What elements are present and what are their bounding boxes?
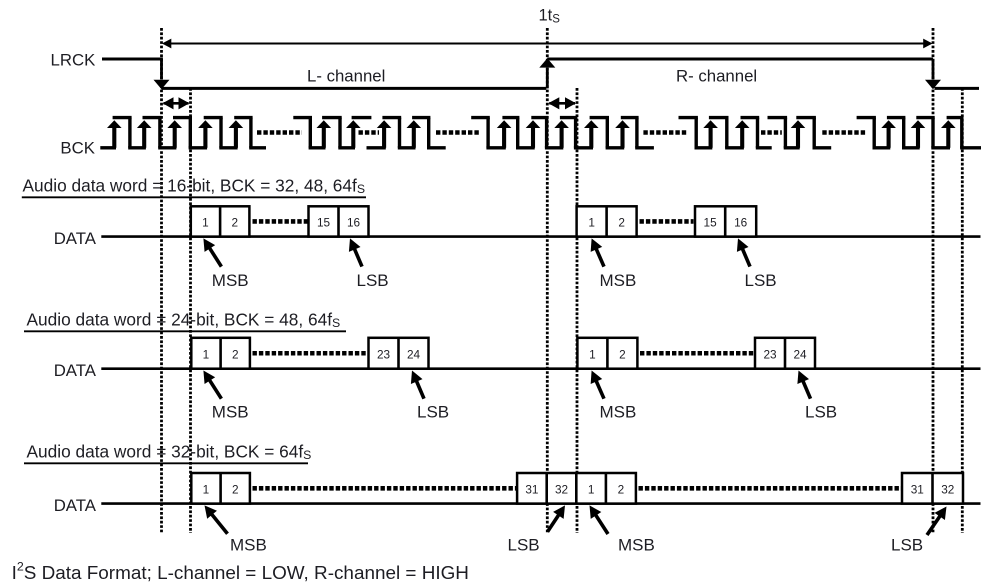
node row3 L MSB bbox=[211, 513, 228, 534]
wire row2 L dots bbox=[253, 351, 368, 356]
svg-text:R- channel: R- channel bbox=[676, 66, 757, 85]
wire LRCK rising edge arrow at center bbox=[546, 68, 549, 88]
svg-text:2: 2 bbox=[618, 215, 625, 229]
node row1 L boxes 1-2 bbox=[191, 206, 250, 236]
svg-text:MSB: MSB bbox=[600, 271, 637, 290]
svg-text:1: 1 bbox=[588, 482, 595, 496]
svg-text:16: 16 bbox=[347, 215, 361, 229]
svg-text:MSB: MSB bbox=[600, 403, 637, 422]
svg-text:DATA: DATA bbox=[54, 496, 97, 515]
node row1 R LSB bbox=[742, 248, 750, 267]
svg-text:LSB: LSB bbox=[805, 403, 837, 422]
svg-text:MSB: MSB bbox=[230, 536, 267, 555]
wire LRCK falling edge arrow at right bbox=[932, 59, 935, 79]
svg-text:23: 23 bbox=[763, 347, 777, 361]
svg-text:BCK: BCK bbox=[60, 139, 95, 158]
svg-text:16: 16 bbox=[734, 215, 748, 229]
svg-text:2: 2 bbox=[619, 347, 626, 361]
wire LRCK lead-in high bbox=[102, 58, 163, 61]
svg-text:I2S Data Format; L-channel = L: I2S Data Format; L-channel = LOW, R-chan… bbox=[12, 560, 469, 584]
svg-text:LSB: LSB bbox=[357, 271, 389, 290]
wire DATA line row1 bbox=[101, 235, 980, 238]
svg-text:15: 15 bbox=[317, 215, 331, 229]
wire BCK clock waveform with rising-edge arrows bbox=[100, 146, 116, 149]
svg-text:DATA: DATA bbox=[54, 229, 97, 248]
svg-text:1: 1 bbox=[588, 215, 595, 229]
svg-text:31: 31 bbox=[911, 482, 924, 496]
node row2 R MSB bbox=[596, 380, 604, 399]
svg-text:Audio data word = 32-bit, BCK: Audio data word = 32-bit, BCK = 64fS bbox=[27, 442, 312, 463]
wire LRCK falling edge arrow at L start bbox=[160, 59, 163, 79]
svg-text:LRCK: LRCK bbox=[51, 51, 96, 70]
node row3 L boxes 1-2 bbox=[191, 473, 250, 504]
wire center dashed guide (LRCK R edge) bbox=[546, 28, 549, 533]
wire left dashed guide (+1 BCK) bbox=[189, 88, 192, 533]
svg-text:32: 32 bbox=[941, 482, 954, 496]
svg-text:LSB: LSB bbox=[891, 536, 923, 555]
svg-text:1: 1 bbox=[203, 347, 210, 361]
node row3 R LSB bbox=[927, 515, 941, 535]
node row1 R MSB bbox=[596, 248, 604, 267]
node row2 R boxes 1-2 bbox=[577, 338, 637, 369]
node row1 R boxes 1-2 bbox=[577, 206, 637, 236]
wire right dashed guide (LRCK end edge) bbox=[932, 28, 935, 533]
wire row1 L dots bbox=[253, 219, 308, 224]
svg-text:Audio data word = 24-bit, BCK: Audio data word = 24-bit, BCK = 48, 64fS bbox=[27, 310, 341, 331]
svg-text:2: 2 bbox=[232, 482, 239, 496]
node row2 L boxes 23-24 bbox=[369, 338, 429, 369]
svg-text:LSB: LSB bbox=[508, 536, 540, 555]
svg-text:Audio data word = 16-bit, BCK: Audio data word = 16-bit, BCK = 32, 48, … bbox=[23, 176, 366, 197]
svg-text:DATA: DATA bbox=[54, 361, 97, 380]
wire LRCK high (R-channel) bbox=[547, 58, 933, 61]
svg-text:15: 15 bbox=[704, 215, 718, 229]
node row2 R LSB bbox=[802, 380, 810, 399]
wire row1 R dots bbox=[640, 219, 694, 224]
node 1tS left arrowhead bbox=[162, 39, 171, 49]
svg-text:31: 31 bbox=[525, 482, 538, 496]
node row1 L MSB bbox=[209, 247, 222, 267]
node row3 C MSB bbox=[595, 514, 608, 534]
wire LRCK trailing low bbox=[935, 87, 980, 90]
wire row2 R dots bbox=[640, 351, 754, 356]
node row3 R boxes 31-32 bbox=[902, 473, 963, 504]
svg-text:LSB: LSB bbox=[745, 271, 777, 290]
wire BCK period double arrow left bbox=[164, 102, 189, 105]
node row1 L LSB bbox=[354, 248, 362, 267]
wire header 32-bit underline bbox=[24, 462, 308, 464]
wire BCK period double arrow center bbox=[549, 102, 575, 105]
svg-text:MSB: MSB bbox=[212, 271, 249, 290]
wire row3 L long dots bbox=[253, 486, 517, 491]
wire DATA line row3 bbox=[101, 502, 980, 505]
node row3 C boxes 31-32-1-2 bbox=[517, 473, 636, 504]
wire 1tS measure line bbox=[164, 43, 932, 45]
node row2 L boxes 1-2 bbox=[191, 338, 250, 369]
svg-text:L- channel: L- channel bbox=[307, 66, 385, 85]
svg-text:2: 2 bbox=[232, 347, 239, 361]
svg-text:23: 23 bbox=[377, 347, 391, 361]
svg-text:1: 1 bbox=[589, 347, 596, 361]
wire right dashed guide (+1 BCK) bbox=[961, 88, 964, 533]
wire header 16-bit underline bbox=[22, 196, 366, 198]
node row1 R boxes 15-16 bbox=[695, 206, 756, 236]
node row3 C LSB bbox=[548, 514, 560, 532]
wire header 24-bit underline bbox=[24, 330, 346, 332]
svg-text:2: 2 bbox=[618, 482, 625, 496]
svg-text:2: 2 bbox=[231, 215, 238, 229]
svg-text:MSB: MSB bbox=[212, 403, 249, 422]
wire center dashed guide (+1 BCK) bbox=[576, 88, 579, 533]
wire LRCK low (L-channel) bbox=[162, 87, 547, 90]
svg-text:1tS: 1tS bbox=[539, 7, 561, 26]
node row2 L MSB bbox=[209, 379, 222, 399]
svg-text:1: 1 bbox=[203, 482, 210, 496]
wire left dashed guide (LRCK L edge) bbox=[160, 28, 163, 533]
node row2 R boxes 23-24 bbox=[755, 338, 815, 369]
node 1tS right arrowhead bbox=[923, 39, 932, 49]
svg-text:1: 1 bbox=[202, 215, 209, 229]
wire DATA line row2 bbox=[101, 367, 980, 370]
wire row3 R long dots bbox=[639, 486, 902, 491]
svg-text:32: 32 bbox=[555, 482, 568, 496]
svg-text:MSB: MSB bbox=[618, 536, 655, 555]
svg-text:24: 24 bbox=[407, 347, 421, 361]
svg-text:LSB: LSB bbox=[417, 403, 449, 422]
node row2 L LSB bbox=[416, 380, 424, 399]
node row1 L boxes 15-16 bbox=[309, 206, 369, 236]
svg-text:24: 24 bbox=[793, 347, 807, 361]
